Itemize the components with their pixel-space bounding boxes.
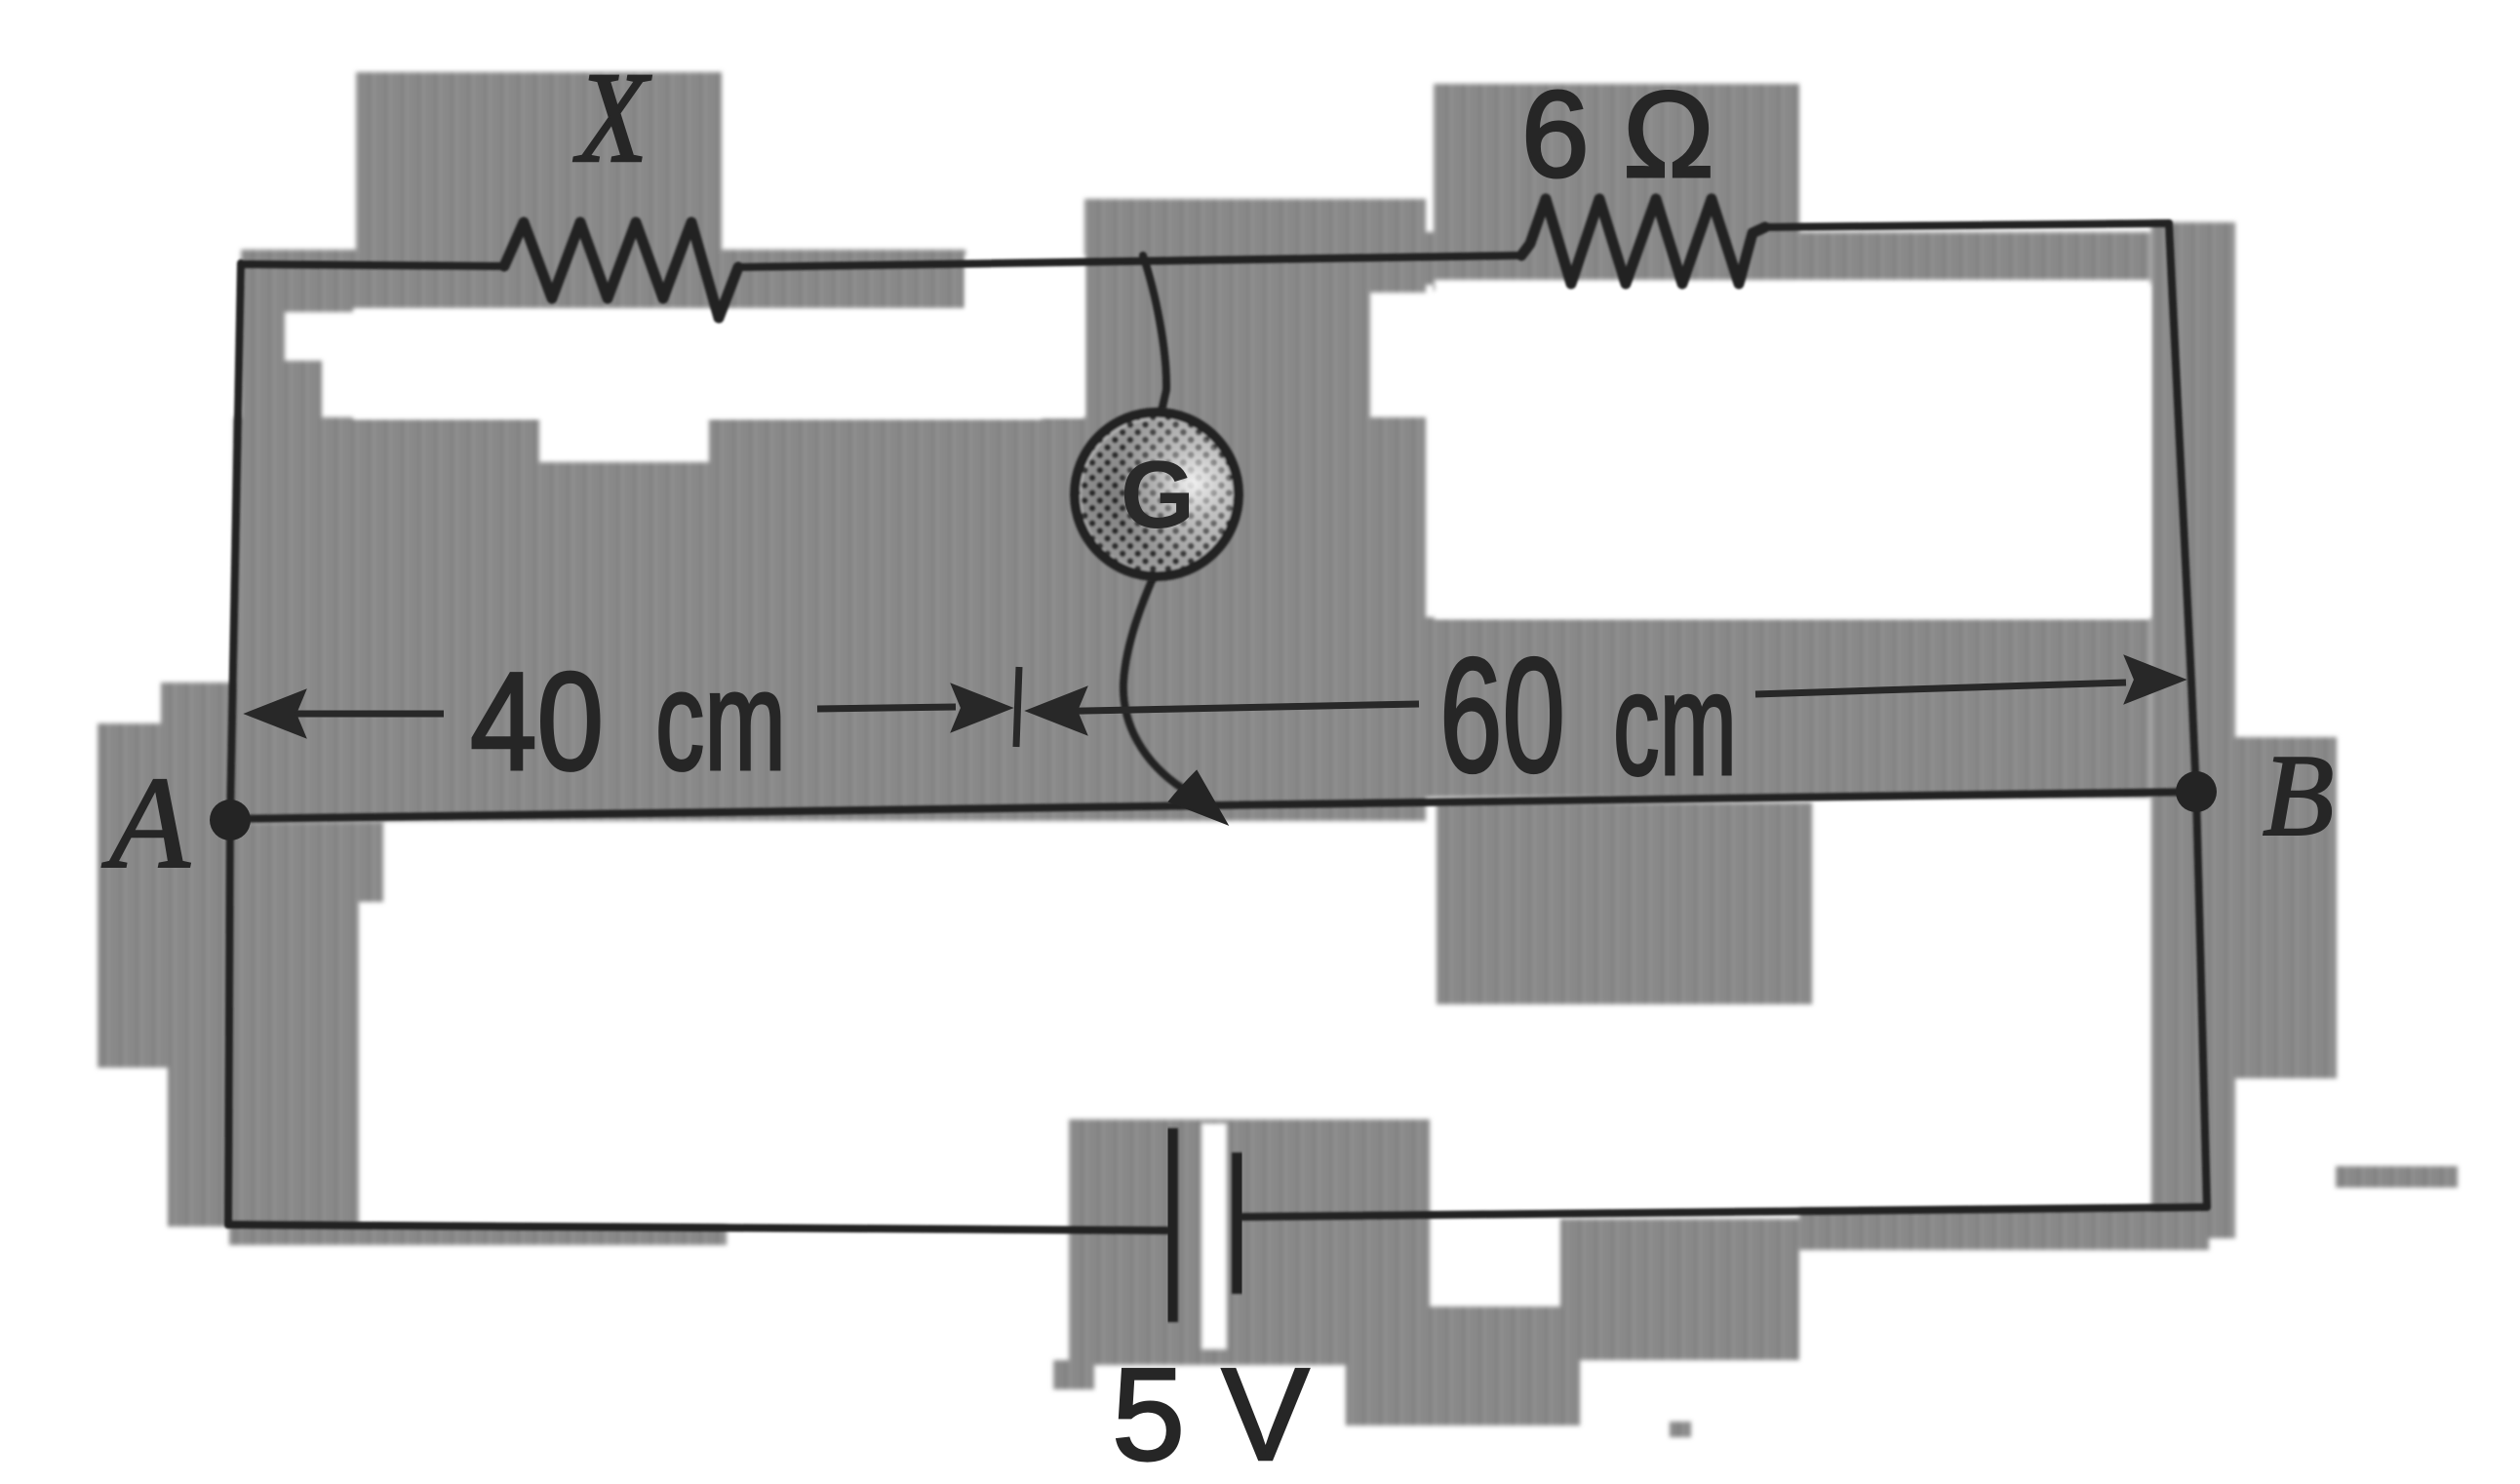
galvanometer top lead xyxy=(1143,255,1166,415)
svg-text:X: X xyxy=(573,45,652,189)
dimension tick at 40cm point xyxy=(1016,667,1019,747)
wire right vertical xyxy=(2169,223,2207,1207)
dimension 60cm right arrowhead xyxy=(2125,656,2185,703)
svg-text:6 Ω: 6 Ω xyxy=(1521,67,1714,203)
dimension 60cm line left segment xyxy=(1036,704,1419,712)
node A dot xyxy=(210,800,251,840)
jockey contact arrowhead xyxy=(1169,771,1227,824)
dimension 40cm left arrowhead xyxy=(246,690,305,737)
svg-text:cm: cm xyxy=(1613,642,1737,805)
dimension 40cm line right segment xyxy=(817,707,956,709)
svg-text:cm: cm xyxy=(655,642,786,800)
resistor X xyxy=(504,222,738,318)
wire top right xyxy=(1765,223,2169,227)
battery 5V short plate xyxy=(1232,1152,1245,1294)
galvanometer G body xyxy=(1075,412,1239,576)
svg-text:40: 40 xyxy=(470,644,604,800)
resistor 6 ohm xyxy=(1521,199,1765,284)
svg-text:5 V: 5 V xyxy=(1112,1341,1310,1484)
dimension 60cm left arrowhead xyxy=(1027,687,1086,734)
svg-text:B: B xyxy=(2263,730,2334,860)
svg-text:G: G xyxy=(1121,441,1195,548)
wire top left xyxy=(241,264,504,266)
svg-text:A: A xyxy=(101,751,190,896)
wire bottom right xyxy=(1242,1207,2207,1217)
svg-text:60: 60 xyxy=(1439,625,1565,806)
node B dot xyxy=(2176,771,2217,812)
wire top middle xyxy=(738,255,1521,267)
wire bottom left xyxy=(228,1225,1167,1230)
dimension 60cm line right segment xyxy=(1755,683,2126,694)
dimension 40cm line left segment xyxy=(256,711,444,718)
wire AB xyxy=(230,792,2196,819)
galvanometer bottom lead xyxy=(1123,576,1183,789)
ink xyxy=(228,199,2207,1230)
battery 5V long plate xyxy=(1164,1128,1178,1322)
dimension 40cm right arrowhead xyxy=(952,684,1011,731)
wire left vertical xyxy=(228,263,241,1225)
